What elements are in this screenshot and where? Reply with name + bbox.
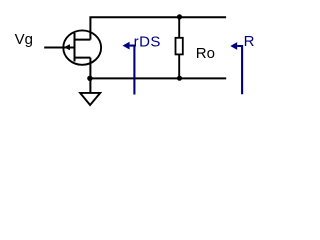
transistor Q1 drain stub (74, 39, 91, 41)
transistor Q1 gate arrow (64, 44, 70, 50)
ground symbol (80, 93, 100, 105)
svg-text:rDS: rDS (134, 33, 161, 50)
arrow R head (230, 42, 237, 50)
wire drain up and top rail (90, 17, 226, 39)
svg-text:R: R (244, 33, 255, 50)
wire source down to ground (89, 58, 91, 93)
wire resistor top lead (178, 17, 180, 38)
arrow rDS head (123, 42, 130, 50)
transistor Q1 channel bar (74, 33, 76, 62)
arrow rDS line (130, 46, 135, 95)
resistor Ro body (176, 38, 183, 55)
arrow R line (237, 46, 242, 94)
junction dot at source node (87, 76, 92, 81)
svg-text:Vg: Vg (15, 31, 33, 48)
junction dot resistor top (177, 14, 182, 19)
svg-text:Ro: Ro (196, 45, 215, 62)
wire bottom rail (90, 77, 226, 79)
junction dot resistor bottom (177, 76, 182, 81)
wire gate lead from Vg (44, 47, 74, 49)
wire resistor bottom lead (178, 54, 180, 78)
transistor Q1 source stub (74, 57, 91, 59)
transistor Q1 body ellipse (63, 30, 101, 64)
